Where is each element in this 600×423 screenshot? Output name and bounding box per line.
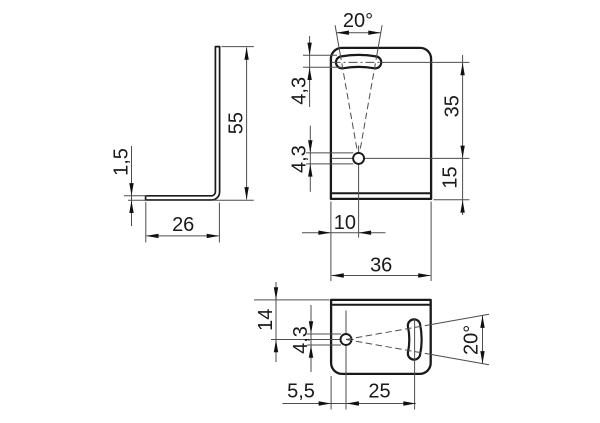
dimension 25 arrow left — [346, 401, 359, 405]
svg-text:25: 25 — [368, 380, 390, 402]
angle line upper dashed bottom view — [346, 325, 431, 340]
angle line left dashed — [341, 56, 359, 158]
svg-text:20°: 20° — [461, 325, 483, 355]
dimension 20 arrow bottom bottom-view — [480, 351, 484, 364]
dimension 14 arrow bottom — [274, 340, 278, 353]
dimension 4,3 hole arrow top — [308, 140, 312, 153]
svg-text:20°: 20° — [343, 10, 373, 32]
svg-text:1,5: 1,5 — [110, 148, 132, 176]
dimension 1,5 arrow top — [129, 183, 133, 196]
svg-text:26: 26 — [172, 214, 194, 236]
dimension 26 line — [147, 235, 219, 237]
dimension 14 extension line top — [254, 299, 330, 301]
dimension 4,3 slot arrow top — [307, 43, 311, 56]
dimension 36 arrow left — [331, 273, 344, 277]
dimension 20 degree line bottom view — [482, 315, 484, 363]
angle line right dashed — [359, 56, 377, 158]
angle line upper solid bottom view — [431, 314, 489, 324]
dimension 4,3 slot arrow bottom — [307, 68, 311, 81]
dimension 20 arrow left — [336, 31, 349, 35]
dimension 36 line — [332, 275, 431, 277]
dimension 4,3 bottom-view line — [310, 305, 312, 372]
slot centerline bottom view — [414, 318, 416, 410]
dimension 4,3 bottom-view arrow top — [309, 321, 313, 334]
dimension 10 line — [302, 232, 386, 234]
front view bend line — [332, 192, 430, 194]
side view L-profile outline — [146, 47, 220, 200]
dimension 20 degree line front — [336, 32, 380, 34]
dimension 1,5 line — [131, 146, 133, 226]
hole centerline vertical bottom view — [345, 311, 347, 410]
hole centerline horizontal front view — [331, 157, 470, 159]
svg-text:55: 55 — [226, 112, 248, 134]
dimension 20 arrow right — [368, 31, 381, 35]
dimension 26 arrow right — [207, 234, 220, 238]
angle line left solid — [335, 25, 340, 56]
slot centerline extension to 35 dimension — [381, 61, 469, 63]
dimension 55 arrow top — [244, 47, 248, 60]
dimension 25 arrow right — [403, 401, 416, 405]
dimension 35-15 extension line bottom — [434, 199, 470, 201]
dimension 5,5 and 25 line — [283, 403, 416, 405]
dimension 1,5 extension line — [124, 195, 147, 197]
dimension 4,3 hole arrow bottom — [308, 164, 312, 177]
svg-text:5,5: 5,5 — [287, 380, 315, 402]
dimension 4,3 slot line — [309, 36, 311, 107]
dimension 14 line — [275, 282, 277, 362]
bottom view bend line — [332, 304, 430, 306]
front view outline — [331, 48, 431, 199]
dimension 5,5 arrow — [319, 401, 332, 405]
svg-text:14: 14 — [255, 309, 277, 331]
dimension 26 extension line right — [218, 203, 220, 243]
dimension 1,5 arrow bottom — [129, 201, 133, 214]
svg-text:4,3: 4,3 — [288, 77, 310, 105]
bottom view outline — [331, 300, 431, 374]
hole centerline vertical front view — [358, 146, 360, 238]
dimension 15 arrow bottom — [460, 200, 464, 213]
svg-text:15: 15 — [440, 166, 462, 188]
vertical slot in bottom view — [408, 319, 422, 359]
dimension 35 arrow bottom — [460, 146, 464, 159]
dimension 14 arrow top — [274, 287, 278, 300]
dimension 10 arrow right — [359, 231, 372, 235]
angle line right solid — [377, 25, 382, 56]
dimension 55 line — [246, 48, 248, 200]
dimension 5,5 extension line — [330, 376, 332, 410]
dimension 26 arrow left — [146, 234, 159, 238]
angle line lower solid bottom view — [431, 354, 489, 364]
hole in front view — [353, 153, 364, 164]
svg-text:35: 35 — [441, 95, 463, 117]
dimension 55 arrow bottom — [244, 187, 248, 200]
dimension 10 extension line left — [330, 202, 332, 282]
dimension 26 extension line left — [145, 202, 147, 243]
dimension 4,3 bottom-view extension lines — [307, 333, 341, 335]
dimension 55 extension line top — [222, 46, 254, 48]
dimension 36 extension line right — [430, 202, 432, 282]
svg-text:4,3: 4,3 — [289, 145, 311, 173]
hole centerline horizontal bottom view — [271, 339, 354, 341]
dimension 4,3 bottom-view arrow bottom — [309, 345, 313, 358]
arc slot in front view — [336, 55, 381, 68]
slot centerline — [332, 61, 382, 63]
svg-text:10: 10 — [334, 212, 356, 234]
dimension 20 arrow top bottom-view — [480, 315, 484, 328]
dimension 35 arrow top — [460, 63, 464, 75]
dimension 36 arrow right — [418, 273, 431, 277]
dimension 10 arrow left — [318, 231, 331, 235]
dimension 4,3 slot extension lines — [303, 54, 337, 56]
svg-text:4,3: 4,3 — [290, 326, 312, 354]
dimension 4,3 hole extension lines — [306, 152, 353, 154]
dimension 35-15 line — [462, 55, 464, 215]
angle line lower dashed bottom view — [346, 340, 431, 355]
dimension 4,3 hole line — [309, 126, 311, 192]
svg-text:36: 36 — [370, 254, 392, 276]
hole in bottom view — [341, 334, 352, 345]
dimension 55 extension line bottom — [128, 199, 254, 201]
